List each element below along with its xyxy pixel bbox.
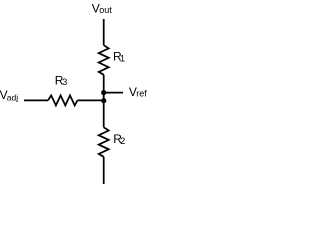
svg-text:ref: ref	[136, 89, 147, 99]
resistor R3	[48, 95, 77, 105]
wire R2 to bottom edge	[103, 157, 105, 184]
node Vref junction dot	[101, 90, 106, 95]
wire R1 to R2 through node	[103, 75, 105, 128]
svg-text:out: out	[99, 5, 112, 15]
wire node to Vref	[104, 92, 123, 94]
resistor R1	[99, 45, 109, 74]
svg-text:2: 2	[120, 136, 125, 146]
svg-text:1: 1	[120, 53, 125, 63]
resistor R2	[99, 127, 109, 157]
wire R3 to node	[77, 99, 103, 101]
svg-text:3: 3	[62, 77, 67, 87]
node adj junction dot	[101, 98, 106, 103]
wire Vadj to R3	[24, 99, 48, 101]
svg-text:adj: adj	[7, 92, 18, 102]
wire Vout to R1	[103, 19, 105, 45]
